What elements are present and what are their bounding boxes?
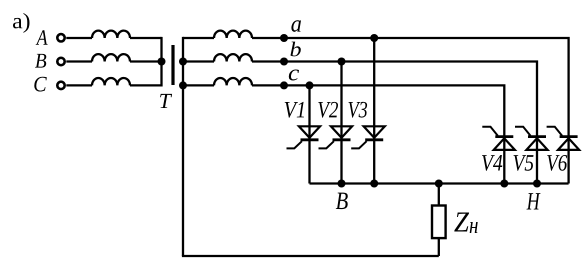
node a: [280, 34, 288, 42]
load Zн rectangle: [432, 206, 446, 239]
terminal C: [57, 82, 64, 89]
wire load column lower: [438, 238, 440, 256]
thyristor V2: [319, 126, 353, 148]
wire bottom return: [182, 255, 439, 257]
label T: [160, 94, 172, 108]
wire V3 column: [373, 38, 375, 184]
thyristor V5: [515, 127, 548, 150]
secondary winding phase b: [214, 54, 252, 61]
rail b wire to V5 column: [252, 62, 537, 184]
wire A to primary winding: [66, 37, 92, 39]
label B (rectifier group): [336, 193, 348, 209]
junction rail H / V4: [500, 180, 508, 188]
junction secondary bus / winding b: [179, 58, 187, 66]
label V3: [349, 102, 368, 118]
label H (inverter group): [527, 193, 541, 209]
terminal A: [57, 34, 64, 41]
node c: [280, 81, 288, 89]
junction rail b / V2 column: [338, 58, 346, 66]
label V5: [514, 155, 534, 171]
junction rail B / V3: [370, 180, 378, 188]
wire C to primary winding: [66, 84, 92, 86]
wire winding C to primary bus: [130, 84, 162, 86]
label Z subscript n: [470, 222, 478, 233]
wire load column upper: [438, 184, 440, 207]
label a): [13, 13, 30, 33]
label A: [36, 30, 48, 44]
secondary winding phase c: [214, 78, 252, 85]
junction rail a / V3 column: [370, 34, 378, 42]
thyristor V6: [547, 127, 580, 150]
label B: [35, 54, 46, 68]
label Z (load): [454, 213, 469, 232]
primary bus wire: [160, 37, 162, 87]
label V6: [547, 155, 567, 171]
secondary bus wire (star point down to bottom return): [182, 37, 184, 256]
wire B to primary winding: [66, 60, 92, 62]
junction primary bus / winding B: [158, 58, 166, 66]
label a: [291, 20, 301, 32]
wire bus to secondary winding b: [183, 60, 214, 62]
primary winding phase B: [92, 54, 130, 61]
junction secondary bus / winding c: [179, 81, 187, 89]
transformer T core bar: [171, 45, 174, 85]
wire winding B to primary bus: [130, 60, 162, 62]
junction rail H / V5: [533, 180, 541, 188]
wire V1 column: [308, 85, 310, 183]
thyristor V3: [351, 126, 385, 148]
rail c wire to V4 column: [252, 85, 504, 183]
thyristor V4: [482, 127, 515, 150]
secondary winding phase a: [214, 31, 252, 38]
label V4: [482, 155, 502, 171]
primary winding phase A: [92, 31, 130, 38]
label V1: [285, 102, 304, 118]
primary winding phase C: [92, 78, 130, 85]
label V2: [318, 102, 338, 118]
junction rail c / V1 column: [306, 81, 314, 89]
rail a wire to V6 column: [252, 38, 569, 184]
wire bus to secondary winding a: [183, 37, 214, 39]
terminal B: [57, 58, 64, 65]
junction rail / load: [435, 180, 443, 188]
wire rail B-H: [310, 182, 569, 184]
wire winding A to primary bus: [130, 37, 162, 39]
thyristor V1: [287, 126, 321, 148]
wire V2 column: [340, 62, 342, 184]
wire bus to secondary winding c: [183, 84, 214, 86]
junction rail B / V2: [338, 180, 346, 188]
node b: [280, 58, 288, 66]
label c: [289, 69, 299, 80]
label C: [34, 77, 47, 92]
label b: [291, 42, 301, 57]
